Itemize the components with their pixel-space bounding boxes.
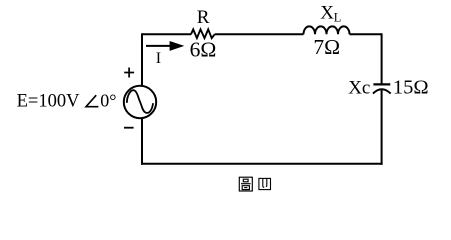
wire right upper segment — [381, 33, 383, 83]
svg-text:0°: 0° — [100, 91, 116, 111]
resistor R zigzag — [191, 29, 215, 38]
caption glyph Four (CJK si) — [259, 178, 271, 189]
wire top-left segment — [142, 33, 191, 35]
wire right lower segment — [381, 90, 383, 165]
wire bottom segment — [141, 163, 383, 165]
angle symbol — [86, 95, 98, 107]
svg-text:L: L — [334, 10, 342, 24]
svg-text:E=100V: E=100V — [17, 92, 80, 112]
capacitor Xc top plate — [373, 83, 390, 85]
wire top-right segment — [350, 33, 382, 35]
AC source E sine wave — [127, 90, 153, 113]
svg-text:R: R — [197, 7, 210, 28]
plus sign polarity — [124, 68, 134, 78]
caption glyph Figure (CJK tu) — [239, 177, 252, 191]
svg-text:6Ω: 6Ω — [190, 38, 217, 62]
wire top-middle segment — [215, 33, 304, 35]
svg-text:X: X — [320, 3, 334, 24]
wire left upper segment — [141, 33, 143, 86]
capacitor Xc curved plate — [373, 89, 391, 93]
inductor XL coil — [304, 26, 350, 34]
minus sign polarity — [124, 127, 134, 129]
svg-text:15Ω: 15Ω — [393, 77, 429, 99]
AC source E circle — [124, 86, 156, 118]
svg-text:Xc: Xc — [348, 78, 370, 99]
svg-text:7Ω: 7Ω — [313, 35, 340, 59]
svg-text:I: I — [156, 50, 161, 67]
wire left lower segment — [141, 118, 143, 165]
current arrow — [146, 41, 184, 51]
